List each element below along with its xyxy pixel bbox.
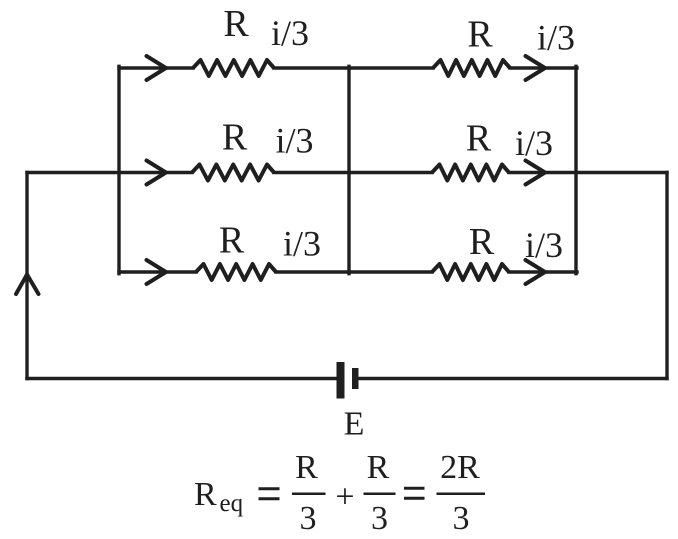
svg-text:i/3: i/3 [525, 225, 563, 265]
svg-text:i/3: i/3 [271, 13, 309, 53]
svg-text:i/3: i/3 [537, 18, 575, 58]
svg-text:3: 3 [371, 500, 388, 537]
svg-text:2R: 2R [440, 449, 480, 486]
svg-text:R: R [223, 3, 249, 45]
svg-text:i/3: i/3 [275, 121, 313, 161]
svg-text:i/3: i/3 [283, 224, 321, 264]
svg-text:R: R [222, 117, 248, 159]
svg-text:E: E [344, 406, 365, 443]
svg-text:eq: eq [220, 490, 244, 517]
svg-text:3: 3 [453, 500, 470, 537]
svg-text:R: R [295, 449, 318, 486]
svg-text:R: R [467, 14, 493, 56]
svg-text:R: R [219, 220, 245, 262]
svg-text:i/3: i/3 [515, 123, 553, 163]
svg-text:+: + [335, 479, 354, 516]
svg-text:3: 3 [300, 500, 317, 537]
svg-text:R: R [367, 449, 390, 486]
svg-text:R: R [469, 221, 495, 263]
svg-text:R: R [194, 476, 217, 513]
svg-text:R: R [466, 118, 492, 160]
